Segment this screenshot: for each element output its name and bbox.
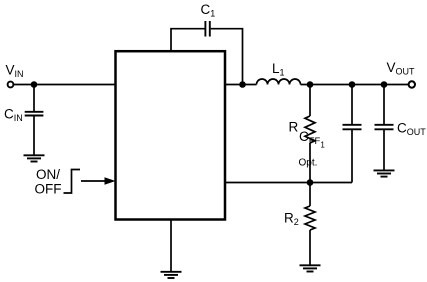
ground COUT [374,170,395,176]
node COUT junction [381,81,388,88]
op-amp U1 regulator IC body [116,51,226,219]
wire COUT top lead [383,85,385,125]
node CFF junction [349,81,356,88]
wire COUT bottom lead [383,130,385,170]
wire CFF bottom lead [351,130,353,183]
inductor L1 [257,79,301,85]
ground IC [161,272,182,278]
node feedback junction [307,179,314,186]
wire RF top lead [309,85,311,117]
ground CIN [24,155,45,161]
node VIN terminal [8,82,14,88]
resistor R2 [305,206,315,230]
wire CFF top lead [351,85,353,125]
node VOUT terminal [409,81,415,87]
node ON/OFF step waveform symbol [64,170,81,194]
wire switch output pin [225,84,257,86]
wire output rail [301,84,409,86]
node junction VIN/CIN [31,81,38,88]
ground R2 [300,265,321,271]
svg-text:OFF: OFF [35,182,62,197]
wire C1 right lead [211,29,243,85]
node switch/C1 junction [239,81,246,88]
node L1/RF junction [307,81,314,88]
wire CIN top lead [33,85,35,112]
wire ON/OFF arrow into IC [81,180,106,182]
wire feedback rail [225,182,352,184]
capacitor CIN [25,112,44,116]
svg-text:ON/: ON/ [36,167,60,182]
capacitor CFF [343,125,362,130]
wire CIN bottom lead [33,116,35,155]
wire C1 left lead [171,29,205,52]
wire R2 top lead [309,183,311,207]
wire VIN rail [14,84,116,86]
capacitor COUT [375,125,394,130]
resistor RF1 [305,116,315,143]
svg-text:Opt.: Opt. [299,158,318,169]
svg-text:R: R [289,120,299,135]
capacitor C1 [205,21,209,37]
wire R2 bottom lead [309,230,311,265]
wire IC ground pin [170,220,172,272]
wire RF bottom lead [309,143,311,183]
